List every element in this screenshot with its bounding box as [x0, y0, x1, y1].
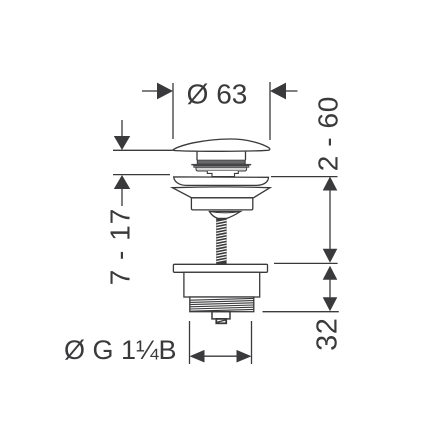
dim G1/4 right extension line: [251, 321, 253, 364]
funnel: [209, 212, 240, 219]
dim 7-17 upper extension line: [113, 149, 173, 151]
dim G1/4 double arrow: [190, 350, 252, 363]
dim 7-17 top arrow: [114, 120, 130, 150]
collar band 2: [194, 166, 249, 168]
svg-text:Ø G 1¼B: Ø G 1¼B: [64, 335, 177, 365]
dim Ø63 right extension line: [269, 82, 271, 140]
dim 32 bottom extension line: [263, 311, 339, 313]
bottom tail screw: [216, 319, 226, 323]
pipe thread block: [190, 297, 254, 312]
dim 2-60 vertical with arrows: [323, 177, 338, 263]
dim 7-17 lower extension line: [113, 174, 170, 176]
dim Ø63 right arrow: [270, 83, 298, 100]
collar wide flange: [191, 164, 251, 166]
dim 7-17 bottom arrow: [114, 175, 130, 206]
collar thread band: [197, 160, 245, 164]
dim Ø63 left arrow: [142, 83, 173, 100]
collar wall left: [196, 152, 198, 161]
svg-text:Ø 63: Ø 63: [187, 78, 248, 109]
svg-text:2 - 60: 2 - 60: [313, 96, 344, 171]
dim G1/4 left extension line: [189, 321, 191, 364]
dim 32 vertical with arrows: [323, 266, 338, 311]
threaded rod: [216, 218, 226, 264]
rosette upper dish: [174, 177, 269, 186]
collar wall right: [245, 152, 247, 161]
cap (plug dome): [173, 139, 270, 151]
collar neck steps: [207, 171, 238, 177]
dim 32/2-60 middle extension line: [274, 262, 338, 264]
dim Ø63 left extension line: [172, 83, 174, 139]
svg-text:7 - 17: 7 - 17: [105, 208, 136, 286]
flange plate: [173, 264, 267, 272]
valve body: [191, 198, 252, 210]
lower body: [184, 272, 260, 297]
rosette lower dish: [172, 187, 270, 198]
dim 2-60 top extension line: [271, 176, 338, 178]
svg-text:32: 32: [312, 318, 344, 351]
collar rounded piece: [196, 167, 247, 171]
rod stub under flange: [215, 272, 226, 274]
bottom nut: [212, 312, 230, 319]
